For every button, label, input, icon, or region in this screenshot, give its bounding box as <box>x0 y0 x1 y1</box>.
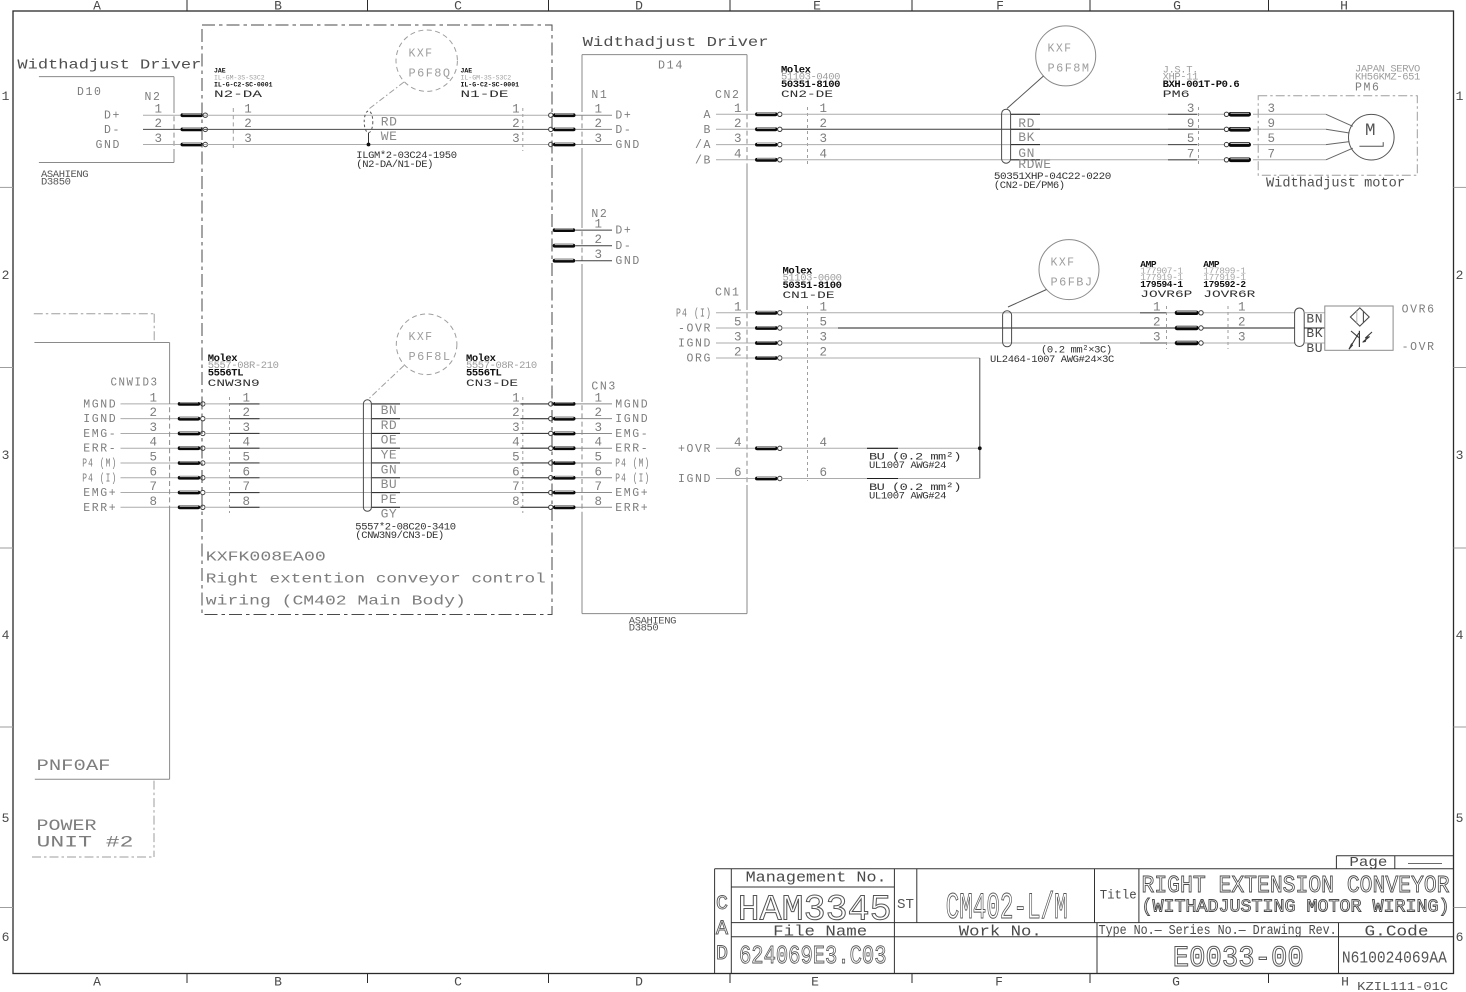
svg-text:ST: ST <box>897 897 914 913</box>
box POWER UNIT #2 (dash-dot) <box>153 781 155 857</box>
svg-text:2: 2 <box>734 346 742 360</box>
svg-text:D14: D14 <box>658 60 684 73</box>
svg-text:E: E <box>811 975 819 990</box>
svg-text:GY: GY <box>381 507 398 522</box>
crimp boundary dashed CN1-DE (long) <box>807 306 809 481</box>
box D14 driver outline <box>582 55 747 614</box>
svg-text:5: 5 <box>1268 132 1276 146</box>
svg-text:EMG+: EMG+ <box>83 487 117 500</box>
svg-text:IGND: IGND <box>678 473 712 486</box>
svg-text:7: 7 <box>595 480 603 494</box>
svg-text:ERR-: ERR- <box>83 443 117 456</box>
svg-text:5: 5 <box>512 450 520 464</box>
svg-text:2: 2 <box>512 406 520 420</box>
svg-text:2: 2 <box>595 233 603 247</box>
svg-text:3: 3 <box>734 331 742 345</box>
svg-text:3: 3 <box>1268 102 1276 116</box>
svg-text:EMG-: EMG- <box>615 428 649 441</box>
svg-text:1: 1 <box>820 300 828 314</box>
cable sheath oval (CNW3N9/CN3-DE cable) <box>363 400 371 512</box>
svg-text:WE: WE <box>381 129 398 144</box>
svg-text:3: 3 <box>734 132 742 146</box>
svg-text:3: 3 <box>1187 102 1195 116</box>
svg-text:7: 7 <box>1187 147 1195 161</box>
svg-text:1: 1 <box>1456 89 1464 104</box>
wire color label RDWE (CN2 run) <box>1011 159 1040 161</box>
svg-text:2: 2 <box>243 406 251 420</box>
svg-text:P4 (M): P4 (M) <box>615 457 650 470</box>
junction dot ORG/+OVR <box>978 446 982 450</box>
balloon KXF P6F8Q <box>396 30 457 91</box>
svg-text:Work No.: Work No. <box>959 924 1042 940</box>
connector boundary dashed (N1-DE) <box>522 108 524 151</box>
wire CN1 pin 5 -OVR to sensor (black) <box>782 327 838 329</box>
svg-text:CNW3N9: CNW3N9 <box>208 379 260 390</box>
svg-text:6: 6 <box>595 465 603 479</box>
svg-text:KXF: KXF <box>1051 257 1076 270</box>
svg-text:1: 1 <box>734 102 742 116</box>
svg-text:A: A <box>703 109 712 122</box>
svg-text:2: 2 <box>734 117 742 131</box>
svg-text:ERR+: ERR+ <box>83 502 117 515</box>
svg-text:4: 4 <box>734 147 742 161</box>
wire CN1 pin 1 P4(I) to sensor <box>782 312 1295 314</box>
svg-text:C: C <box>454 0 462 14</box>
wire GND (N2-DA to N1-DE) <box>204 144 549 146</box>
svg-text:1: 1 <box>1153 300 1161 314</box>
svg-text:9: 9 <box>1268 117 1276 131</box>
svg-text:6: 6 <box>149 465 157 479</box>
svg-text:Title: Title <box>1100 888 1137 903</box>
wire color label BK (CN2 run) <box>1011 128 1040 130</box>
svg-text:(CN2-DE/PM6): (CN2-DE/PM6) <box>994 180 1065 192</box>
svg-text:5: 5 <box>2 811 10 826</box>
svg-text:2: 2 <box>154 117 162 131</box>
svg-text:4: 4 <box>820 147 828 161</box>
svg-text:1: 1 <box>244 103 252 117</box>
svg-text:(CNW3N9/CN3-DE): (CNW3N9/CN3-DE) <box>355 530 444 542</box>
svg-text:4: 4 <box>149 436 157 450</box>
wire CN2 pin 1 to PM6 <box>782 113 1226 115</box>
svg-text:3: 3 <box>820 331 828 345</box>
crimp boundary dashed CNW3N9 <box>229 397 231 513</box>
svg-text:B: B <box>274 0 282 14</box>
svg-text:+OVR: +OVR <box>678 443 712 456</box>
svg-text:N610024069AA: N610024069AA <box>1342 950 1448 969</box>
cable sheath oval (ILGM cable) <box>364 111 373 133</box>
svg-text:7: 7 <box>512 480 520 494</box>
svg-text:RIGHT EXTENSION CONVEYOR: RIGHT EXTENSION CONVEYOR <box>1142 873 1450 900</box>
svg-text:A: A <box>93 975 101 990</box>
dash-dot continuation (PNF0AF top) <box>34 313 154 315</box>
svg-text:E0033-00: E0033-00 <box>1173 942 1304 976</box>
svg-text:E: E <box>813 0 821 14</box>
crimp boundary dashed CN3-DE <box>522 397 524 513</box>
svg-text:ERR-: ERR- <box>615 443 649 456</box>
svg-text:5556TL: 5556TL <box>466 367 502 379</box>
svg-text:ERR+: ERR+ <box>615 502 649 515</box>
wire D- (N2-DA to N1-DE) <box>204 128 549 130</box>
svg-text:2: 2 <box>595 406 603 420</box>
svg-text:D3850: D3850 <box>41 177 71 189</box>
svg-text:1: 1 <box>820 102 828 116</box>
svg-text:G: G <box>1173 0 1181 14</box>
svg-text:UL1007 AWG#24: UL1007 AWG#24 <box>869 490 946 502</box>
svg-text:1: 1 <box>595 103 603 117</box>
svg-text:3: 3 <box>1153 331 1161 345</box>
svg-text:6: 6 <box>734 466 742 480</box>
svg-text:1: 1 <box>243 391 251 405</box>
svg-text:3: 3 <box>512 132 520 146</box>
svg-text:CN3-DE: CN3-DE <box>466 379 518 390</box>
svg-text:2: 2 <box>149 406 157 420</box>
crimp boundary dashed CN2-DE <box>807 107 809 166</box>
svg-text:KXF: KXF <box>409 48 434 61</box>
svg-text:IGND: IGND <box>678 338 712 351</box>
svg-text:1: 1 <box>595 391 603 405</box>
svg-text:1: 1 <box>734 300 742 314</box>
svg-text:JOVR6R: JOVR6R <box>1203 290 1255 301</box>
svg-text:RDWE: RDWE <box>1018 157 1051 172</box>
cable sheath oval (CN1 cable) <box>1003 311 1012 347</box>
junction dot on GND wire <box>367 143 371 147</box>
svg-text:CN2: CN2 <box>715 89 741 102</box>
svg-text:ORG: ORG <box>686 353 712 366</box>
svg-text:5: 5 <box>1456 811 1464 826</box>
svg-text:5: 5 <box>595 450 603 464</box>
svg-text:5: 5 <box>734 316 742 330</box>
svg-text:P6F8L: P6F8L <box>409 351 452 364</box>
balloon KXF P6FBJ <box>1039 240 1099 300</box>
motor unit dash-dot box <box>1258 96 1417 175</box>
svg-text:D: D <box>635 975 643 990</box>
svg-text:IL-GM-3S-S3C2: IL-GM-3S-S3C2 <box>461 74 512 81</box>
svg-text:3: 3 <box>2 448 10 463</box>
svg-text:G: G <box>1172 975 1180 990</box>
svg-text:C: C <box>716 893 728 916</box>
svg-text:RD: RD <box>1018 116 1035 131</box>
svg-text:1: 1 <box>512 391 520 405</box>
pin 3 GND of N2 (D14) <box>553 259 576 263</box>
svg-text:2: 2 <box>820 117 828 131</box>
svg-text:7: 7 <box>1268 147 1276 161</box>
svg-text:D: D <box>635 0 643 14</box>
wire color label BK (sensor) <box>1304 327 1325 329</box>
sensor OVR6 box <box>1325 306 1393 350</box>
svg-text:Right extention conveyor contr: Right extention conveyor control <box>206 572 546 588</box>
svg-text:BXH-001T-P0.6: BXH-001T-P0.6 <box>1163 79 1240 91</box>
svg-text:GND: GND <box>615 139 641 152</box>
svg-text:EMG+: EMG+ <box>615 487 649 500</box>
svg-text:POWER: POWER <box>37 817 97 835</box>
svg-text:B: B <box>274 975 282 990</box>
svg-text:IL-G-C2-SC-0001: IL-G-C2-SC-0001 <box>461 81 520 88</box>
svg-text:PE: PE <box>381 492 398 507</box>
svg-text:3: 3 <box>244 132 252 146</box>
svg-text:1: 1 <box>154 103 162 117</box>
svg-text:9: 9 <box>1187 117 1195 131</box>
svg-text:8: 8 <box>512 495 520 509</box>
svg-text:UNIT #2: UNIT #2 <box>37 834 134 852</box>
svg-text:CNWID3: CNWID3 <box>111 377 159 390</box>
svg-text:4: 4 <box>734 436 742 450</box>
svg-text:UL1007 AWG#24: UL1007 AWG#24 <box>869 460 946 472</box>
box PNF0AF outline <box>34 343 169 780</box>
svg-text:6: 6 <box>2 930 10 945</box>
svg-text:2: 2 <box>1153 316 1161 330</box>
wire CN1 pin 3 IGND to sensor <box>782 342 1295 344</box>
svg-text:BN: BN <box>1306 311 1323 326</box>
svg-text:6: 6 <box>243 465 251 479</box>
svg-text:2: 2 <box>244 117 252 131</box>
svg-text:4: 4 <box>243 436 251 450</box>
svg-text:GN: GN <box>381 462 398 477</box>
svg-text:UL2464-1007 AWG#24×3C: UL2464-1007 AWG#24×3C <box>990 354 1114 366</box>
svg-text:P6FBJ: P6FBJ <box>1051 277 1094 290</box>
svg-text:PNF0AF: PNF0AF <box>37 757 111 775</box>
svg-text:JOVR6P: JOVR6P <box>1140 290 1192 301</box>
svg-text:BK: BK <box>1306 326 1323 341</box>
svg-text:IL-G-C2-SC-0001: IL-G-C2-SC-0001 <box>214 81 273 88</box>
connector boundary dashed JOVR6R <box>1227 306 1229 349</box>
svg-text:D-: D- <box>615 124 632 137</box>
leader line P6FBJ <box>1008 290 1047 308</box>
wire color label GN (CN2 run) <box>1011 144 1040 146</box>
svg-text:50351-8100: 50351-8100 <box>781 79 840 91</box>
svg-text:A: A <box>716 918 728 941</box>
svg-text:179592-2: 179592-2 <box>1203 279 1246 290</box>
svg-text:KXF: KXF <box>1048 43 1073 56</box>
leader line P6F8L <box>369 366 405 400</box>
wire color label BN (sensor) <box>1304 312 1325 314</box>
svg-text:7: 7 <box>149 480 157 494</box>
svg-text:wiring (CM402 Main Body): wiring (CM402 Main Body) <box>206 594 466 610</box>
svg-text:Widthadjust motor: Widthadjust motor <box>1266 175 1405 191</box>
cable sheath oval (CN2-DE/PM6 cable) <box>1002 109 1011 163</box>
svg-text:Type No.— Series No.— Drawing: Type No.— Series No.— Drawing Rev. <box>1099 924 1337 939</box>
svg-text:P6F8M: P6F8M <box>1048 63 1091 76</box>
svg-text:3: 3 <box>1238 331 1246 345</box>
svg-text:D-: D- <box>104 124 121 137</box>
svg-text:-OVR: -OVR <box>678 323 712 336</box>
wire color label BU (sensor) <box>1304 342 1325 344</box>
svg-text:H: H <box>1341 975 1349 990</box>
svg-text:2: 2 <box>1238 316 1246 330</box>
leader line P6F8M <box>1007 76 1044 109</box>
connector boundary dashed PM6 <box>1198 107 1200 166</box>
svg-text:3: 3 <box>512 421 520 435</box>
svg-text:N1-DE: N1-DE <box>461 90 509 101</box>
svg-text:BN: BN <box>381 403 398 418</box>
svg-text:BU: BU <box>381 477 398 492</box>
connector boundary dashed (N2-DA) <box>232 108 234 151</box>
svg-text:4: 4 <box>512 436 520 450</box>
svg-text:RD: RD <box>381 418 398 433</box>
wire D+ (N2-DA to N1-DE) <box>204 114 549 116</box>
svg-text:A: A <box>93 0 101 14</box>
svg-text:4: 4 <box>820 436 828 450</box>
svg-text:(WITHADJUSTING MOTOR WIRING): (WITHADJUSTING MOTOR WIRING) <box>1142 898 1450 918</box>
svg-text:P4 (I): P4 (I) <box>615 472 650 485</box>
svg-text:H: H <box>1340 0 1348 14</box>
svg-text:B: B <box>703 124 712 137</box>
svg-text:MGND: MGND <box>615 398 649 411</box>
wire CN2 pin 2 to PM6 <box>782 128 1226 130</box>
svg-text:C: C <box>454 975 462 990</box>
svg-text:5: 5 <box>243 450 251 464</box>
svg-text:3: 3 <box>595 132 603 146</box>
svg-text:1: 1 <box>595 218 603 232</box>
svg-text:Widthadjust Driver: Widthadjust Driver <box>17 58 201 74</box>
svg-text:D+: D+ <box>104 110 121 123</box>
svg-text:F: F <box>996 0 1004 14</box>
svg-text:1: 1 <box>2 89 10 104</box>
svg-text:BK: BK <box>1018 130 1035 145</box>
sensor phototransistor symbol <box>1358 331 1360 347</box>
svg-text:2: 2 <box>595 117 603 131</box>
wire CN1 pin 2 ORG (turns down) <box>782 357 980 359</box>
svg-text:3: 3 <box>595 421 603 435</box>
svg-text:CN2-DE: CN2-DE <box>781 90 833 101</box>
page number placeholder line <box>1408 863 1442 865</box>
shield drain wire to GND <box>368 133 370 143</box>
svg-text:G.Code: G.Code <box>1365 924 1429 940</box>
svg-text:OVR6: OVR6 <box>1402 303 1436 316</box>
svg-text:3: 3 <box>154 132 162 146</box>
svg-text:4: 4 <box>2 628 10 643</box>
svg-text:KXFK008EA00: KXFK008EA00 <box>206 550 326 566</box>
svg-text:CN1: CN1 <box>715 287 741 300</box>
svg-text:2: 2 <box>512 117 520 131</box>
svg-text:6: 6 <box>820 466 828 480</box>
motor M symbol <box>1349 114 1395 160</box>
svg-text:2: 2 <box>2 268 10 283</box>
svg-text:D10: D10 <box>77 86 103 99</box>
svg-text:PM6: PM6 <box>1163 90 1190 101</box>
svg-text:KXF: KXF <box>409 331 434 344</box>
svg-text:RD: RD <box>381 115 398 130</box>
svg-text:D3850: D3850 <box>629 623 659 635</box>
svg-text:5: 5 <box>149 450 157 464</box>
svg-text:/B: /B <box>695 154 712 167</box>
pin 1 D+ of N2 (D14) <box>553 228 576 232</box>
svg-text:5: 5 <box>1187 132 1195 146</box>
svg-text:KZIL111-01C: KZIL111-01C <box>1357 980 1448 992</box>
svg-text:3: 3 <box>149 421 157 435</box>
sensor emitter diamond symbol <box>1350 308 1369 326</box>
svg-text:GND: GND <box>615 255 641 268</box>
svg-text:P4 (I): P4 (I) <box>676 307 712 320</box>
svg-text:(N2-DA/N1-DE): (N2-DA/N1-DE) <box>356 159 433 171</box>
svg-text:P4 (M): P4 (M) <box>82 457 117 470</box>
svg-text:6: 6 <box>512 465 520 479</box>
svg-text:File Name: File Name <box>773 924 867 940</box>
title block grid <box>715 856 1454 974</box>
pin 2 D- of N2 (D14) <box>553 244 576 248</box>
svg-text:MGND: MGND <box>83 398 117 411</box>
svg-text:4: 4 <box>1456 628 1464 643</box>
svg-text:/A: /A <box>695 139 712 152</box>
svg-text:8: 8 <box>149 495 157 509</box>
svg-text:2: 2 <box>820 346 828 360</box>
svg-text:8: 8 <box>595 495 603 509</box>
vertical link wire ORG to +OVR/IGND <box>979 358 981 479</box>
svg-text:IGND: IGND <box>615 413 649 426</box>
svg-text:D-: D- <box>615 240 632 253</box>
svg-text:GND: GND <box>95 139 121 152</box>
svg-text:5: 5 <box>820 316 828 330</box>
balloon KXF P6F8L <box>396 314 457 375</box>
svg-text:3: 3 <box>243 421 251 435</box>
svg-text:D: D <box>716 943 728 966</box>
wires PM6 to motor <box>1253 113 1326 115</box>
connector boundary dashed JOVR6P <box>1166 306 1168 349</box>
svg-text:D+: D+ <box>615 110 632 123</box>
svg-text:1: 1 <box>149 391 157 405</box>
wire CN2 pin 3 to PM6 <box>782 144 1226 146</box>
svg-text:2: 2 <box>1456 268 1464 283</box>
svg-text:P4 (I): P4 (I) <box>82 472 117 485</box>
svg-text:M: M <box>1365 121 1376 141</box>
svg-text:6: 6 <box>1456 930 1464 945</box>
svg-text:OE: OE <box>381 433 398 448</box>
box KXFK008EA00 control wiring (dash-dot) <box>202 25 552 615</box>
svg-text:F: F <box>995 975 1003 990</box>
wire color label RD (CN2 run) <box>1011 113 1040 115</box>
svg-text:IL-GM-3S-S3C2: IL-GM-3S-S3C2 <box>214 74 265 81</box>
balloon KXF P6F8M <box>1036 26 1096 86</box>
svg-text:N2-DA: N2-DA <box>214 90 262 101</box>
svg-text:PM6: PM6 <box>1355 82 1381 95</box>
svg-text:D+: D+ <box>615 225 632 238</box>
svg-text:Management No.: Management No. <box>746 870 887 886</box>
svg-text:624069E3.C03: 624069E3.C03 <box>739 941 887 971</box>
svg-text:EMG-: EMG- <box>83 428 117 441</box>
svg-text:3: 3 <box>595 248 603 262</box>
box D10 driver outline <box>39 77 174 163</box>
svg-text:7: 7 <box>243 480 251 494</box>
svg-text:N1: N1 <box>591 89 608 102</box>
svg-text:P6F8Q: P6F8Q <box>409 68 452 81</box>
svg-text:3: 3 <box>820 132 828 146</box>
svg-text:1: 1 <box>512 103 520 117</box>
svg-text:Widthadjust Driver: Widthadjust Driver <box>583 35 769 51</box>
svg-text:YE: YE <box>381 448 398 463</box>
wire CN2 pin 4 to PM6 <box>782 159 1226 161</box>
svg-text:4: 4 <box>595 436 603 450</box>
svg-text:8: 8 <box>243 495 251 509</box>
svg-text:5556TL: 5556TL <box>208 367 244 379</box>
svg-text:-OVR: -OVR <box>1402 341 1436 354</box>
svg-text:IGND: IGND <box>83 413 117 426</box>
svg-text:179594-1: 179594-1 <box>1140 279 1183 290</box>
svg-text:50351-8100: 50351-8100 <box>783 280 842 292</box>
leader line P6F8Q <box>370 82 405 109</box>
svg-text:1: 1 <box>1238 300 1246 314</box>
cable sheath oval (sensor cable) <box>1295 308 1305 347</box>
svg-text:BU: BU <box>1306 341 1323 356</box>
svg-text:Page: Page <box>1349 855 1387 871</box>
svg-text:3: 3 <box>1456 448 1464 463</box>
